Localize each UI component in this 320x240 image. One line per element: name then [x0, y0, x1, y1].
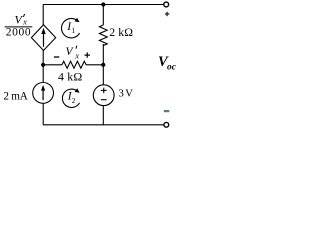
wire right branch mid — [102, 44, 104, 85]
plus sign of Voc (blue) — [165, 12, 169, 16]
svg-text:4 kΩ: 4 kΩ — [58, 69, 82, 83]
svg-text:x: x — [74, 51, 79, 60]
wire bottom rail — [43, 124, 164, 126]
minus sign of Vx' (4k) — [54, 56, 59, 58]
svg-text:2000: 2000 — [6, 26, 31, 38]
wire top rail — [43, 4, 163, 6]
terminal bottom right — [164, 122, 169, 127]
wire middle rail left — [43, 64, 62, 66]
plus sign of Vx' (4k) — [85, 52, 90, 57]
svg-text:V: V — [15, 12, 24, 26]
wire left branch lower — [42, 103, 44, 125]
wire left branch upper — [42, 5, 44, 26]
svg-text:2: 2 — [72, 96, 76, 105]
dependent current source (diamond) — [31, 25, 55, 51]
svg-text:oc: oc — [167, 62, 176, 72]
svg-text:3 V: 3 V — [118, 87, 133, 99]
svg-text:V: V — [66, 46, 75, 58]
resistor 2 kOhm — [99, 25, 107, 46]
voltage source 3 V — [93, 85, 114, 106]
mesh current I2 — [62, 88, 79, 107]
junction node right mid — [101, 63, 105, 67]
terminal top right — [164, 2, 169, 7]
wire right branch top — [102, 5, 104, 26]
wire right branch bottom — [102, 106, 104, 125]
minus sign of Voc (teal) — [164, 110, 170, 112]
svg-text:2 kΩ: 2 kΩ — [109, 25, 133, 39]
junction node top — [101, 2, 105, 6]
wire left branch mid — [42, 51, 44, 83]
current source 2 mA — [33, 83, 54, 104]
label Voc (blue) — [158, 54, 177, 72]
mesh current I1 — [62, 18, 80, 38]
junction node left mid — [41, 63, 45, 67]
label Vx' (4k) — [66, 46, 80, 61]
resistor 4 kOhm — [62, 61, 86, 68]
label Vx'/2000 — [5, 12, 33, 38]
svg-text:x: x — [22, 17, 27, 26]
wire middle rail right — [86, 64, 103, 66]
svg-text:2 mA: 2 mA — [3, 90, 27, 102]
svg-text:1: 1 — [71, 26, 75, 35]
